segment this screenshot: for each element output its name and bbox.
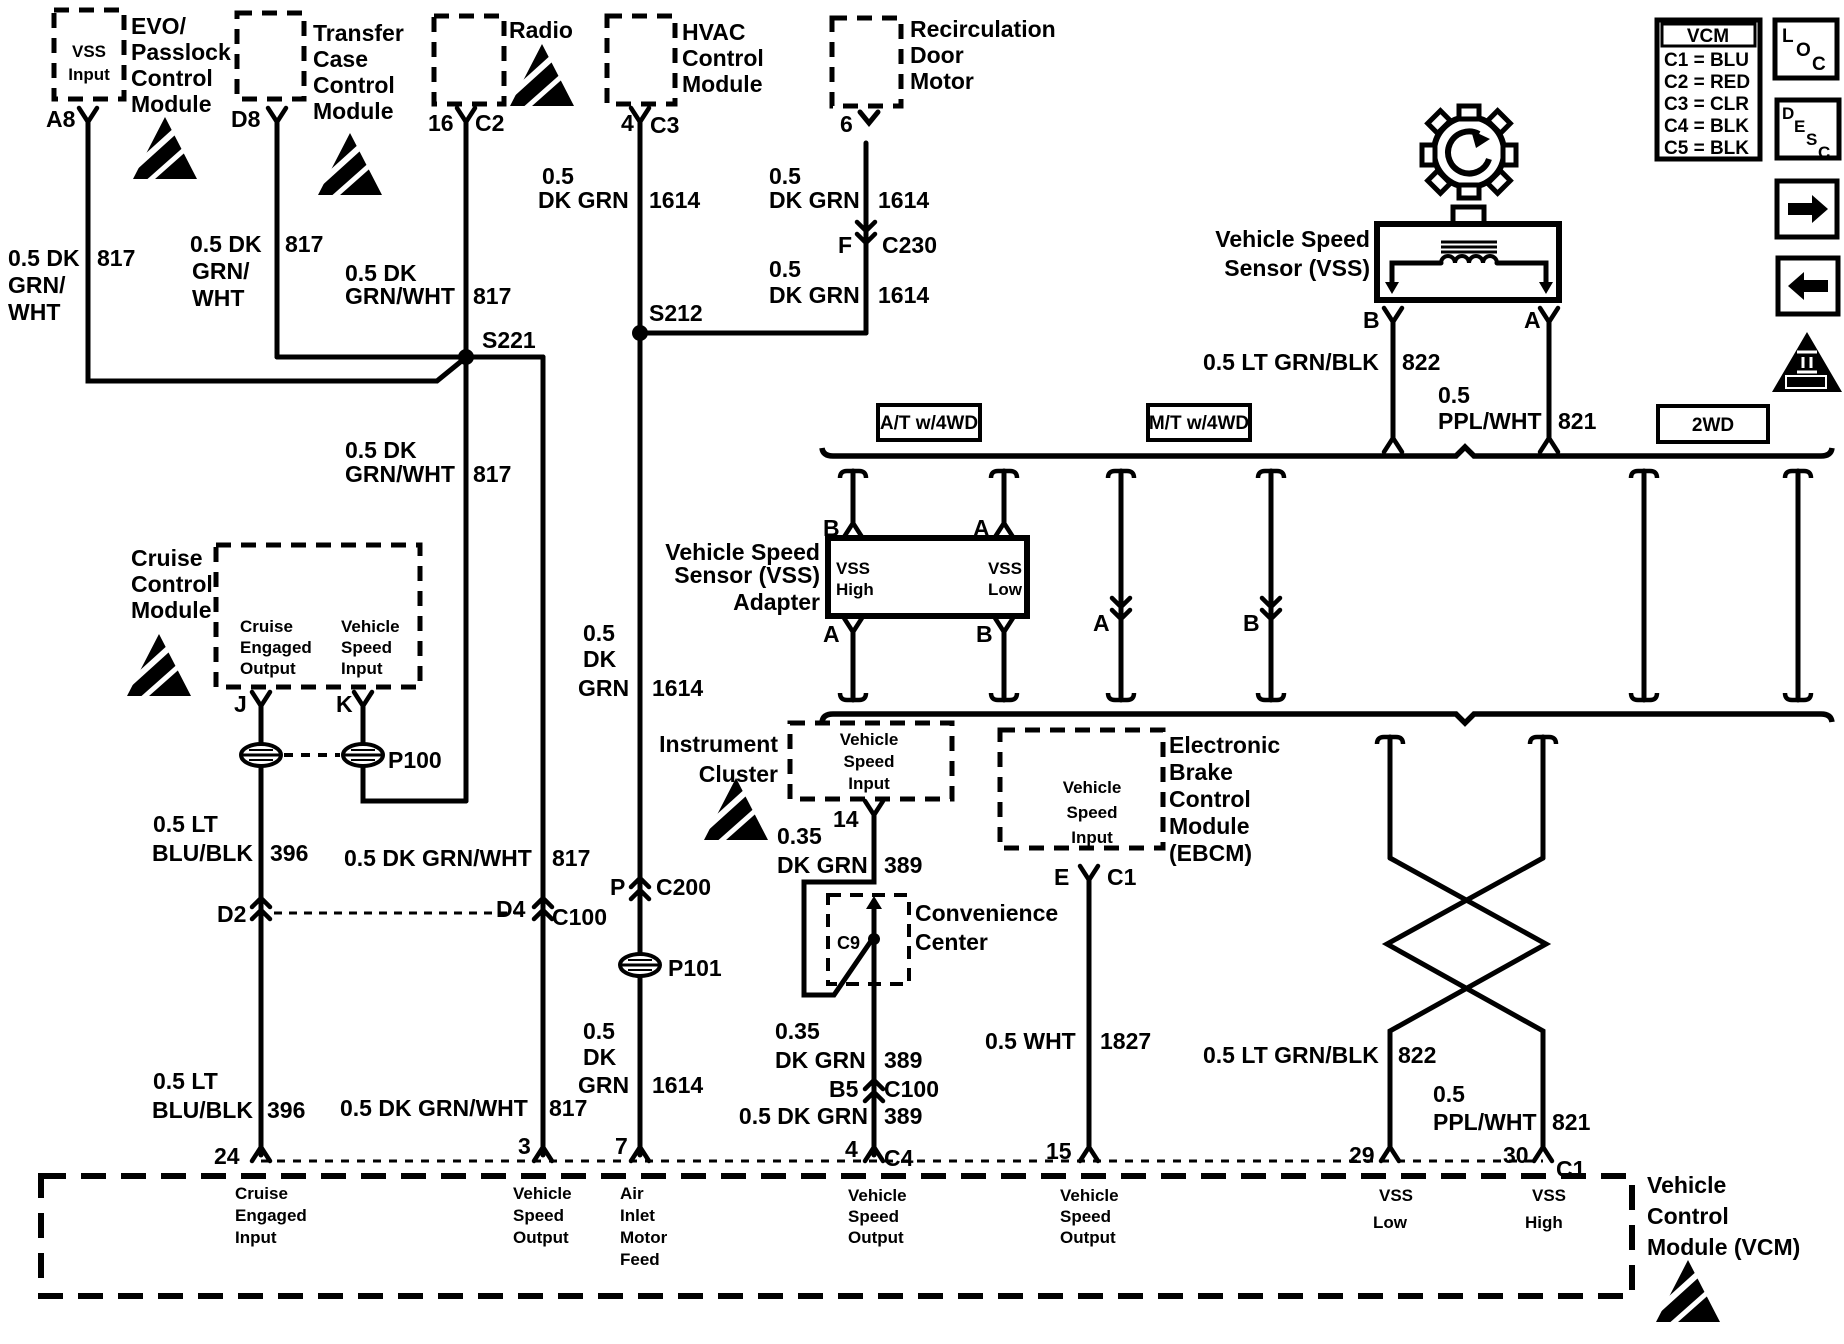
svg-text:B: B [1363,307,1380,333]
ESD symbol (Cruise) [127,634,191,698]
EBCM box [1000,730,1163,848]
LOC icon [1775,20,1837,78]
svg-text:C3 = CLR: C3 = CLR [1664,94,1749,115]
svg-text:S212: S212 [649,300,703,326]
svg-text:Control: Control [682,45,764,71]
convenience center box [828,895,909,984]
svg-text:Radio: Radio [509,17,573,43]
svg-text:0.5 DK: 0.5 DK [190,231,262,257]
svg-text:C3: C3 [650,112,679,138]
stub A (M/T) [1108,471,1134,478]
wire 821 from A [1547,322,1552,438]
svg-text:396: 396 [267,1097,305,1123]
right arrow icon [1777,181,1837,237]
svg-text:P101: P101 [668,955,722,981]
svg-text:A: A [823,621,840,647]
wire 389 from 14 [804,815,874,995]
svg-text:DK: DK [583,646,617,672]
svg-text:Electronic: Electronic [1169,732,1280,758]
svg-text:PPL/WHT: PPL/WHT [1438,408,1542,434]
VCM module box [41,1176,1632,1296]
svg-text:822: 822 [1402,349,1440,375]
splice S212 [632,325,648,341]
svg-text:Adapter: Adapter [733,589,820,615]
svg-text:Vehicle: Vehicle [840,730,899,749]
svg-text:Vehicle: Vehicle [513,1184,572,1203]
tag A/T w/4WD [878,405,980,440]
svg-text:C100: C100 [884,1076,939,1102]
svg-text:389: 389 [884,1103,922,1129]
triangle II C601 icon [1772,332,1842,392]
svg-text:D2: D2 [217,901,246,927]
bottom bus brace [822,714,1832,723]
svg-text:GRN: GRN [578,675,629,701]
svg-text:817: 817 [285,231,323,257]
svg-text:821: 821 [1552,1109,1591,1135]
svg-text:D8: D8 [231,106,261,132]
svg-text:0.5 DK GRN/WHT: 0.5 DK GRN/WHT [340,1095,528,1121]
svg-text:Speed: Speed [1060,1207,1111,1226]
svg-text:Output: Output [1060,1228,1116,1247]
svg-text:Sensor (VSS): Sensor (VSS) [1224,255,1370,281]
svg-text:0.5: 0.5 [1438,382,1470,408]
svg-text:Sensor (VSS): Sensor (VSS) [674,562,820,588]
svg-text:Input: Input [341,659,383,678]
svg-text:GRN/: GRN/ [8,272,66,298]
svg-text:BLU/BLK: BLU/BLK [152,1097,253,1123]
svg-text:S221: S221 [482,327,536,353]
svg-text:Vehicle: Vehicle [1647,1172,1726,1198]
svg-text:29: 29 [1349,1142,1375,1168]
tag 2WD [1658,406,1768,442]
svg-text:Input: Input [1071,828,1113,847]
wire 1614 from Recirculation [864,143,869,333]
svg-text:PPL/WHT: PPL/WHT [1433,1109,1537,1135]
svg-text:D: D [1782,104,1794,123]
svg-text:Module: Module [131,91,212,117]
svg-text:389: 389 [884,852,922,878]
svg-text:6: 6 [840,111,853,137]
stub from bus to crossing right [1530,737,1556,744]
svg-text:C4 = BLK: C4 = BLK [1664,116,1749,137]
left arrow icon [1778,258,1838,314]
svg-text:Speed: Speed [341,638,392,657]
svg-text:0.5 DK GRN: 0.5 DK GRN [739,1103,868,1129]
svg-text:Vehicle Speed: Vehicle Speed [1215,226,1370,252]
svg-text:GRN: GRN [578,1072,629,1098]
svg-text:1614: 1614 [649,187,700,213]
svg-text:A: A [1093,610,1110,636]
crossing wires [1390,858,1546,1147]
svg-text:Passlock: Passlock [131,39,231,65]
svg-text:WHT: WHT [8,299,60,325]
stub from bus to crossing left [1377,737,1403,744]
svg-text:Case: Case [313,46,368,72]
svg-text:396: 396 [270,840,308,866]
svg-text:0.5: 0.5 [769,163,801,189]
svg-text:7: 7 [615,1133,628,1159]
svg-text:0.35: 0.35 [777,823,822,849]
connector P101 [620,954,660,976]
svg-text:O: O [1796,40,1811,61]
svg-text:VSS: VSS [72,42,106,61]
svg-text:0.5: 0.5 [769,256,801,282]
svg-text:K: K [336,691,353,717]
wire 389 down from C9 [872,939,877,1155]
ESD symbol (EVO/Passlock) [133,117,197,181]
wire 817 S221 down to D4 [541,357,546,1155]
VSS sensor body [1453,207,1484,224]
svg-text:Brake: Brake [1169,759,1233,785]
svg-text:817: 817 [97,245,135,271]
svg-text:Recirculation: Recirculation [910,16,1056,42]
svg-text:0.5 WHT: 0.5 WHT [985,1028,1076,1054]
stub B to adapter [840,471,866,478]
svg-text:Input: Input [235,1228,277,1247]
wire 396 from J [259,706,264,1155]
svg-text:0.5: 0.5 [542,163,574,189]
svg-text:Input: Input [848,774,890,793]
svg-text:1614: 1614 [652,675,703,701]
module Recirculation Door Motor box [832,18,901,106]
svg-text:C4: C4 [884,1145,914,1171]
svg-text:Speed: Speed [848,1207,899,1226]
svg-text:C1 = BLU: C1 = BLU [1664,50,1749,71]
svg-text:C: C [1818,143,1830,162]
svg-text:0.5 DK GRN/WHT: 0.5 DK GRN/WHT [344,845,532,871]
svg-text:C60 1: C60 1 [1794,378,1818,388]
svg-text:A8: A8 [46,106,76,132]
VCM pin line [261,1160,1543,1163]
stub 2WD right [1785,471,1811,478]
svg-text:821: 821 [1558,408,1597,434]
svg-text:B: B [1243,610,1260,636]
svg-text:Control: Control [1647,1203,1729,1229]
module HVAC Control Module box [607,16,675,104]
connector P100 [241,744,281,766]
svg-text:EVO/: EVO/ [131,13,187,39]
svg-text:Instrument: Instrument [659,731,778,757]
svg-text:Door: Door [910,42,964,68]
svg-text:Center: Center [915,929,988,955]
svg-text:VSS: VSS [988,559,1022,578]
svg-text:0.5: 0.5 [583,1018,615,1044]
svg-text:Cruise: Cruise [131,545,203,571]
wire 1827 [1087,880,1092,1147]
svg-text:14: 14 [833,806,859,832]
svg-text:30: 30 [1503,1142,1529,1168]
svg-text:2WD: 2WD [1692,415,1734,436]
svg-text:HVAC: HVAC [682,19,745,45]
svg-text:Vehicle: Vehicle [848,1186,907,1205]
svg-text:Vehicle: Vehicle [341,617,400,636]
svg-text:C1: C1 [1107,864,1137,890]
svg-text:Motor: Motor [620,1228,668,1247]
svg-text:P: P [610,874,625,900]
svg-text:389: 389 [884,1047,922,1073]
svg-text:C5 = BLK: C5 = BLK [1664,138,1749,159]
svg-text:Control: Control [313,72,395,98]
svg-text:DK GRN: DK GRN [777,852,868,878]
svg-text:24: 24 [214,1143,240,1169]
svg-text:Air: Air [620,1184,644,1203]
svg-text:0.5 LT GRN/BLK: 0.5 LT GRN/BLK [1203,349,1379,375]
VSS gear icon [1422,106,1516,198]
ESD symbol (Radio) [510,44,574,108]
svg-text:Speed: Speed [1066,803,1117,822]
svg-text:F: F [838,232,852,258]
svg-text:Inlet: Inlet [620,1206,655,1225]
svg-text:C2: C2 [475,110,504,136]
module Radio box [434,16,504,104]
svg-text:(EBCM): (EBCM) [1169,840,1252,866]
svg-text:817: 817 [473,461,511,487]
top bus brace [822,447,1832,456]
module Transfer Case Control Module box [237,13,304,99]
svg-text:VSS: VSS [1532,1186,1566,1205]
svg-text:E: E [1794,117,1805,136]
svg-text:DK GRN: DK GRN [769,282,860,308]
svg-text:Module: Module [682,71,763,97]
svg-text:C230: C230 [882,232,937,258]
svg-text:Transfer: Transfer [313,20,404,46]
svg-text:0.5 DK: 0.5 DK [8,245,80,271]
wire 1614 from HVAC C3 [638,122,643,1155]
svg-text:DK: DK [583,1044,617,1070]
svg-text:Module (VCM): Module (VCM) [1647,1234,1800,1260]
ESD symbol (Instrument Cluster) [704,778,768,842]
svg-text:Engaged: Engaged [240,638,312,657]
svg-text:Cruise: Cruise [240,617,293,636]
svg-text:WHT: WHT [192,285,244,311]
svg-text:GRN/WHT: GRN/WHT [345,461,455,487]
wire 817 from A8 [88,122,464,381]
svg-text:C200: C200 [656,874,711,900]
svg-text:L: L [1782,26,1794,47]
svg-text:Module: Module [131,597,212,623]
svg-text:High: High [836,580,874,599]
svg-text:DK GRN: DK GRN [769,187,860,213]
svg-text:Vehicle: Vehicle [1060,1186,1119,1205]
svg-text:Cruise: Cruise [235,1184,288,1203]
cruise control module box [216,545,420,687]
svg-text:P100: P100 [388,747,442,773]
svg-text:J: J [234,691,247,717]
svg-text:817: 817 [473,283,511,309]
svg-text:Control: Control [131,571,213,597]
ESD symbol (Transfer Case) [318,133,382,197]
svg-text:0.5 LT: 0.5 LT [153,811,218,837]
wire 817 from Radio C2 down [464,122,469,801]
svg-text:Feed: Feed [620,1250,660,1269]
svg-text:Engaged: Engaged [235,1206,307,1225]
svg-text:4: 4 [845,1136,858,1162]
svg-text:DK GRN: DK GRN [538,187,629,213]
svg-text:C9: C9 [837,933,860,953]
svg-text:A/T w/4WD: A/T w/4WD [880,413,978,434]
DESC icon [1777,100,1839,162]
svg-text:Speed: Speed [513,1206,564,1225]
wire 817 from D8 [275,122,280,357]
svg-text:1827: 1827 [1100,1028,1151,1054]
svg-text:1614: 1614 [878,187,929,213]
svg-text:M/T w/4WD: M/T w/4WD [1149,413,1249,434]
svg-text:0.5 LT: 0.5 LT [153,1068,218,1094]
ESD symbol (VCM) [1656,1260,1720,1324]
svg-text:16: 16 [428,110,454,136]
svg-text:VSS: VSS [1379,1186,1413,1205]
svg-text:A: A [1524,307,1541,333]
svg-text:0.5: 0.5 [1433,1081,1465,1107]
svg-text:817: 817 [549,1095,587,1121]
svg-text:B5: B5 [829,1076,859,1102]
svg-text:0.5 LT GRN/BLK: 0.5 LT GRN/BLK [1203,1042,1379,1068]
svg-text:Output: Output [513,1228,569,1247]
svg-text:C2 = RED: C2 = RED [1664,72,1750,93]
instrument cluster box [790,723,952,799]
VCM connector color table [1657,20,1760,159]
svg-text:0.5: 0.5 [583,620,615,646]
svg-text:C100: C100 [552,904,607,930]
stub B (M/T) [1258,471,1284,478]
svg-text:VSS: VSS [836,559,870,578]
svg-text:D4: D4 [496,896,526,922]
svg-text:Low: Low [988,580,1023,599]
tag M/T w/4WD [1148,405,1250,440]
svg-text:0.35: 0.35 [775,1018,820,1044]
svg-text:Convenience: Convenience [915,900,1058,926]
svg-text:B: B [976,621,993,647]
VSS adapter box [828,538,1027,616]
svg-text:Output: Output [240,659,296,678]
svg-text:1614: 1614 [652,1072,703,1098]
svg-text:Control: Control [131,65,213,91]
svg-text:DK GRN: DK GRN [775,1047,866,1073]
stub 2WD left [1631,471,1657,478]
svg-text:4: 4 [621,110,634,136]
svg-text:GRN/: GRN/ [192,258,250,284]
svg-text:Speed: Speed [843,752,894,771]
svg-text:VCM: VCM [1687,26,1729,47]
svg-text:Vehicle: Vehicle [1063,778,1122,797]
svg-text:GRN/WHT: GRN/WHT [345,283,455,309]
svg-text:817: 817 [552,845,590,871]
svg-text:BLU/BLK: BLU/BLK [152,840,253,866]
svg-text:C: C [1812,54,1826,75]
svg-text:0.5 DK: 0.5 DK [345,437,417,463]
svg-text:822: 822 [1398,1042,1436,1068]
stub A to adapter [991,471,1017,478]
svg-text:Motor: Motor [910,68,974,94]
svg-text:Low: Low [1373,1213,1408,1232]
splice S221 [277,355,543,360]
svg-text:Module: Module [1169,813,1250,839]
svg-text:Control: Control [1169,786,1251,812]
svg-text:High: High [1525,1213,1563,1232]
svg-text:Module: Module [313,98,394,124]
svg-text:1614: 1614 [878,282,929,308]
svg-text:3: 3 [518,1133,531,1159]
svg-text:Input: Input [68,65,110,84]
svg-text:Output: Output [848,1228,904,1247]
wire from K to S221 vertical [363,706,466,801]
svg-text:E: E [1054,864,1069,890]
svg-text:S: S [1806,130,1817,149]
module EVO/Passlock Control Module box [54,10,124,99]
wire 822 from B [1391,322,1396,438]
